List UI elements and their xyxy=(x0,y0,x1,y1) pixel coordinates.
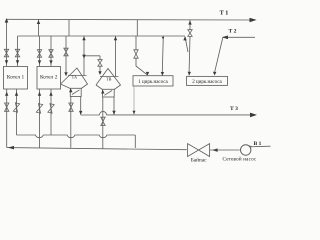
svg-text:ТА: ТА xyxy=(72,74,77,79)
svg-text:2 цирк.насоса: 2 цирк.насоса xyxy=(192,80,222,85)
svg-text:ТВ: ТВ xyxy=(106,77,112,82)
svg-text:Котел 1: Котел 1 xyxy=(7,74,25,80)
svg-text:Байпас: Байпас xyxy=(191,157,207,164)
svg-text:Сетевой насос: Сетевой насос xyxy=(223,155,257,162)
svg-text:Т 2: Т 2 xyxy=(229,29,237,35)
svg-text:Т 1: Т 1 xyxy=(220,10,229,17)
svg-text:1 цирк.насоса: 1 цирк.насоса xyxy=(138,80,168,85)
svg-text:Т 3: Т 3 xyxy=(230,106,238,112)
svg-text:Котел 2: Котел 2 xyxy=(40,74,58,80)
svg-text:В 1: В 1 xyxy=(254,141,262,147)
